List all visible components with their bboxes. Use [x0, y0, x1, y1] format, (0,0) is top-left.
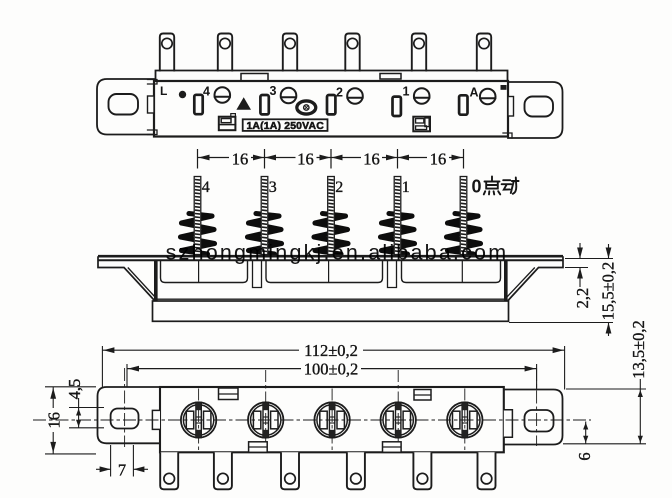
bottom view left bracket — [98, 387, 161, 443]
svg-text:3: 3 — [270, 84, 277, 98]
right side wall — [504, 260, 508, 302]
pitch dimension extension lines — [197, 149, 199, 169]
top view terminal tab 5 — [412, 34, 426, 71]
strip latch window 2 — [380, 74, 401, 80]
certification oval mark — [297, 101, 316, 114]
slot between 2 and 1 — [393, 97, 401, 116]
bottom terminal tab 2 — [214, 452, 232, 489]
dim 100±0,2 line — [127, 368, 301, 370]
top view left mounting ear — [97, 79, 154, 135]
bottom terminal tab 4 — [347, 452, 365, 489]
double-insulation symbol right — [413, 117, 430, 132]
dim 4,5 extension lines — [69, 407, 104, 409]
contact dot — [179, 91, 186, 98]
top view terminal tab 1 — [160, 34, 174, 71]
plunger 3 shaft and spring — [248, 177, 282, 255]
dim 4,5 line — [78, 398, 80, 428]
warning triangle — [236, 97, 251, 110]
double-insulation symbol left — [219, 117, 236, 131]
horizontal centerline — [33, 419, 591, 421]
bottom terminal tab 3 — [281, 452, 299, 489]
top view terminal tab 2 — [218, 34, 232, 71]
left ear fold line — [128, 268, 156, 298]
screw terminal 3 — [281, 88, 297, 104]
dim 100±0,2 extension left — [126, 364, 128, 410]
left side wall — [154, 260, 158, 302]
svg-text:112±0,2: 112±0,2 — [304, 341, 358, 360]
svg-text:L: L — [160, 84, 167, 98]
svg-text:1A(1A) 250VAC: 1A(1A) 250VAC — [246, 121, 324, 132]
svg-text:16: 16 — [430, 150, 447, 169]
left bracket oval hole — [111, 409, 139, 429]
lower housing box — [153, 301, 509, 321]
bottom terminal tab 1 — [160, 452, 178, 489]
slot between 1 and A — [459, 95, 467, 114]
plunger 4 shaft and spring — [181, 177, 215, 255]
svg-text:7: 7 — [118, 461, 126, 480]
button 3 centerline — [331, 389, 333, 452]
bottom edge window 2 — [383, 442, 402, 453]
top edge window 1 — [219, 388, 239, 400]
right bent ear (side) — [508, 256, 563, 300]
svg-text:4: 4 — [203, 85, 210, 99]
dim 13,5±0,2 line — [639, 379, 641, 444]
body bottom line — [155, 298, 508, 300]
svg-text:4,5: 4,5 — [65, 379, 84, 400]
dim 16 extension lines — [45, 386, 96, 388]
left ear oval hole — [109, 94, 139, 115]
bottom terminal tab 5 — [413, 452, 431, 489]
compartment 2 — [266, 261, 383, 283]
top view terminal tab 3 — [283, 34, 297, 71]
screw terminal A — [480, 89, 496, 105]
plunger 2 shaft and spring — [314, 177, 348, 255]
bottom terminal tab 6 — [478, 452, 496, 489]
button 5 centerline — [464, 389, 466, 452]
left bracket keyway — [152, 410, 160, 429]
button 1 — [181, 402, 216, 437]
dim 15,5±0,2 — [608, 244, 610, 259]
dim 112±0,2 extension right — [564, 346, 566, 390]
right ear oval hole — [525, 97, 554, 117]
compartment 1 — [161, 261, 248, 283]
right bracket oval hole — [525, 410, 554, 432]
pitch dimension line 16x4 — [198, 157, 230, 159]
screw terminal 2 — [347, 88, 363, 104]
plunger 0 shaft and spring — [447, 177, 481, 255]
inter-compartment notch 1 — [253, 261, 262, 288]
svg-text:4: 4 — [202, 179, 210, 196]
button 4 — [381, 402, 416, 437]
left junction notch bottom — [148, 130, 158, 135]
bottom view body — [160, 387, 504, 452]
right junction black mark — [501, 85, 507, 90]
svg-text:16: 16 — [45, 412, 64, 429]
right ear fold line — [507, 268, 535, 298]
svg-text:16: 16 — [232, 150, 249, 169]
bottom edge window 1 — [249, 442, 268, 453]
dim 100±0,2 extension right — [536, 364, 538, 409]
left junction notch top — [148, 80, 158, 85]
svg-text:15,5±0,2: 15,5±0,2 — [599, 262, 618, 321]
slot between 3 and 2 — [327, 95, 335, 114]
svg-text:A: A — [470, 86, 479, 100]
svg-text:13,5±0,2: 13,5±0,2 — [629, 320, 648, 379]
dim 112±0,2 extension left — [101, 346, 103, 387]
svg-text:szhongmingkj.en.alibaba.com: szhongmingkj.en.alibaba.com — [166, 241, 509, 265]
top view main body — [154, 81, 508, 137]
svg-text:100±0,2: 100±0,2 — [304, 360, 358, 379]
svg-text:1: 1 — [403, 85, 410, 99]
dim 7 line — [96, 468, 111, 470]
left hole centerline vertical — [124, 368, 126, 447]
dim 6 line — [585, 422, 587, 444]
right hole centerline vertical — [536, 368, 538, 446]
compartment divider 3 — [461, 261, 463, 283]
slot under L — [194, 95, 202, 114]
dim 2,2 — [579, 243, 581, 259]
plunger 1 shaft and spring — [381, 177, 415, 255]
right keyway tab — [508, 97, 514, 117]
bottom view right bracket — [504, 390, 563, 445]
chinese glyph dong — [502, 178, 519, 194]
screw terminal 1 — [414, 88, 430, 104]
compartment divider 1 — [198, 261, 200, 283]
right bracket keyway — [504, 410, 513, 438]
top view terminal tab 4 — [345, 34, 359, 71]
slot between 4 and 3 — [260, 95, 268, 114]
svg-text:2: 2 — [336, 86, 343, 100]
dim 7 extension lines — [110, 445, 112, 477]
svg-text:0: 0 — [472, 177, 482, 197]
svg-text:16: 16 — [297, 150, 314, 169]
svg-text:1: 1 — [402, 179, 410, 196]
top view back strip — [156, 71, 508, 82]
svg-text:2,2: 2,2 — [573, 288, 592, 309]
left bent ear (side) — [98, 256, 155, 300]
strip latch window 1 — [241, 74, 268, 82]
inter-compartment notch 2 — [388, 261, 397, 288]
mounting plate top — [98, 255, 563, 258]
button 4 centerline — [397, 370, 399, 451]
dim 2,2 extension lines — [565, 258, 613, 260]
svg-text:16: 16 — [363, 150, 380, 169]
button 1 centerline — [198, 389, 200, 452]
svg-text:6: 6 — [575, 452, 594, 460]
top view terminal tab 6 — [477, 34, 491, 71]
screw terminal 4 — [215, 87, 231, 103]
chinese glyph dian — [484, 177, 500, 195]
right junction notch bottom — [503, 133, 512, 138]
dim 15,5 bottom extension — [509, 322, 613, 324]
button 2 centerline — [265, 370, 267, 451]
left keyway tab — [148, 96, 155, 113]
dim 13,5±0,2 extensions — [566, 388, 646, 390]
top edge window 2 — [414, 390, 431, 401]
svg-text:3: 3 — [269, 179, 277, 196]
top view right mounting ear — [508, 82, 563, 138]
compartment divider 2 — [328, 261, 330, 283]
button 5 — [447, 402, 482, 437]
dim 112±0,2 line — [102, 349, 299, 351]
button 2 — [248, 402, 283, 437]
button 3 — [314, 402, 349, 437]
rating box 1A(1A) 250VAC — [243, 119, 328, 131]
svg-text:2: 2 — [335, 179, 343, 196]
compartment 3 — [402, 261, 501, 283]
dim 16 line — [52, 387, 54, 408]
